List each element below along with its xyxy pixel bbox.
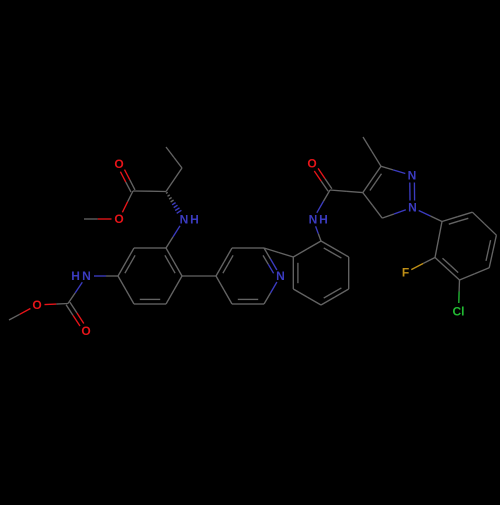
svg-text:F: F (402, 266, 409, 280)
svg-text:O: O (307, 157, 316, 171)
svg-text:H: H (319, 212, 328, 226)
svg-text:O: O (114, 212, 123, 226)
svg-text:N: N (276, 269, 285, 283)
svg-text:H: H (71, 269, 80, 283)
svg-text:N: N (408, 201, 417, 215)
svg-text:N: N (408, 169, 417, 183)
svg-text:N: N (82, 269, 91, 283)
svg-text:H: H (190, 213, 199, 227)
svg-text:O: O (81, 324, 90, 338)
svg-text:N: N (309, 212, 318, 226)
svg-text:Cl: Cl (453, 305, 465, 319)
svg-text:O: O (114, 157, 123, 171)
svg-text:O: O (32, 298, 41, 312)
svg-text:N: N (180, 213, 189, 227)
